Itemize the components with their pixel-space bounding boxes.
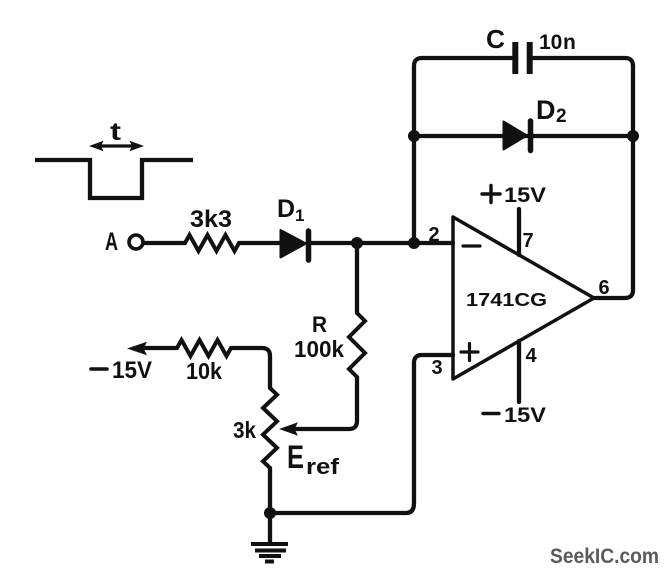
op-amp U1 triangle [453,217,594,379]
wire feedback top to capacitor [422,56,512,60]
resistor R 100k [349,313,365,377]
svg-text:15V: 15V [112,357,152,384]
svg-text:SeekIC.com: SeekIC.com [550,545,659,568]
svg-text:t: t [110,118,122,146]
svg-text:15V: 15V [504,184,546,207]
wire pot to ground node [268,468,272,513]
-15V supply wire pin 4 [517,341,521,402]
wire 10k to potentiometer [231,348,270,388]
wire capacitor to right vertical [533,58,633,66]
svg-text:6: 6 [598,277,609,299]
+15V supply wire pin 7 [517,209,521,255]
svg-text:D: D [536,95,556,125]
svg-text:E: E [287,439,304,475]
capacitor C [515,42,529,74]
label -15V left [91,357,152,384]
wire feedback left vertical [414,58,422,243]
svg-text:n: n [563,31,576,54]
svg-text:2: 2 [428,224,439,246]
diode D2 [504,121,531,151]
diode D1 [281,230,309,260]
wiper arrowhead [279,422,298,436]
svg-text:R: R [312,312,327,337]
input terminal A [105,228,143,256]
waveform pulse [35,160,193,198]
potentiometer 3k [263,388,277,468]
label -15V [483,404,546,427]
wire node to R 100k [355,243,359,313]
label +15V [482,184,546,207]
label D2 [536,95,567,127]
node at feedback junction [408,237,420,249]
wire ground node stub [268,513,272,542]
label 10n [539,31,576,54]
svg-text:7: 7 [522,230,533,252]
ground node [264,507,276,519]
svg-text:3k3: 3k3 [190,206,232,233]
wire R to wiper [296,377,357,429]
label D1 [277,195,304,225]
svg-text:100k: 100k [294,336,344,362]
svg-text:2: 2 [556,106,567,127]
wire pin 3 to ground rail [270,355,453,513]
wire 3k3 to D1 [239,241,281,245]
svg-text:A: A [105,228,118,256]
node at R junction [351,237,363,249]
svg-text:ref: ref [306,454,340,479]
node D2 left [408,130,420,142]
svg-text:D: D [277,195,295,223]
svg-text:3: 3 [431,357,442,379]
wire D1 to op-amp pin 2 [310,241,453,245]
svg-text:1741CG: 1741CG [466,289,547,310]
op-amp non-inverting input mark [461,344,478,361]
svg-text:1: 1 [295,206,304,225]
-15V arrow terminal [127,342,177,355]
op-amp inverting input mark [463,244,480,247]
ground symbol [251,544,288,562]
wire D2 branch [414,134,633,138]
svg-text:15V: 15V [504,404,546,427]
wire feedback right vertical [625,66,633,298]
svg-text:4: 4 [525,345,537,367]
resistor 3k3 [185,235,239,251]
wire A to 3k3 [144,241,185,245]
label Eref [287,439,340,479]
resistor 10k [177,340,231,356]
svg-text:C: C [486,24,505,54]
pulse width arrow [89,141,144,151]
node D2 right [627,130,639,142]
wire output pin 6 [594,296,625,300]
svg-text:10: 10 [539,31,562,54]
svg-text:3k: 3k [233,417,256,443]
svg-text:10k: 10k [186,358,222,384]
